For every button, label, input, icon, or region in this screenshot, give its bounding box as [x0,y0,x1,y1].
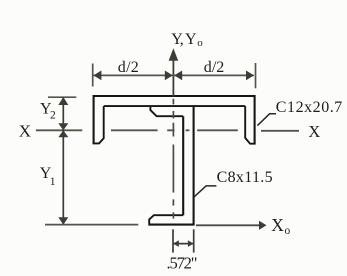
svg-text:o: o [197,37,203,49]
Xo axis line [196,224,260,226]
svg-text:X: X [19,122,31,141]
channel C8x11.5 bottom flange [149,215,183,223]
Xo axis arrowhead [259,221,267,230]
Y,Yo centerline dashes [172,99,174,219]
Y,Yo axis shaft [172,60,174,97]
dimension Y1 extension line bottom [45,224,138,226]
svg-text:Y, Y: Y, Y [171,31,197,48]
svg-text:d/2: d/2 [118,59,139,76]
svg-text:X: X [271,215,284,235]
channel C8x11.5 web left face [182,116,184,215]
channel C8x11.5 bottom edge [148,224,194,226]
dimension d/2 left extension line [92,64,94,87]
label C8x11.5 leader [194,186,216,197]
Y,Yo axis arrowhead [169,48,179,61]
channel C12x20.7 right flange tip [245,106,255,144]
svg-text:C8x11.5: C8x11.5 [217,169,273,186]
dimension Y1 arrowheads [58,130,68,137]
svg-text:1: 1 [50,176,56,188]
svg-text:.572": .572" [167,253,198,272]
dimension Y1 line [62,130,64,224]
svg-text:C12x20.7: C12x20.7 [276,99,343,116]
dimension .572 right tick [193,229,195,252]
channel C12x20.7 left flange tip [93,106,104,143]
dimension d/2 arrowheads [93,71,101,81]
dimension d/2 right extension line [255,63,257,88]
channel C8x11.5 web right face [193,106,195,224]
dimension .572 arrowheads [173,240,179,247]
dimension .572 line [173,243,194,245]
label C12x20.7 leader [257,114,276,126]
channel C12x20.7 inner web line [104,105,246,107]
svg-text:X: X [308,122,320,141]
svg-text:o: o [285,225,291,237]
X-X axis dashed line [36,129,299,132]
dimension Y2 arrowheads [58,97,68,105]
svg-text:d/2: d/2 [204,59,225,76]
dimension .572 left tick [172,229,174,252]
channel C12x20.7 outer outline [94,96,255,144]
dimension Y2 line [62,97,64,130]
channel C8x11.5 top flange [150,107,183,117]
dimension Y2 extension line top [48,96,76,98]
svg-text:2: 2 [50,109,56,121]
dimension d/2 line [94,74,254,76]
